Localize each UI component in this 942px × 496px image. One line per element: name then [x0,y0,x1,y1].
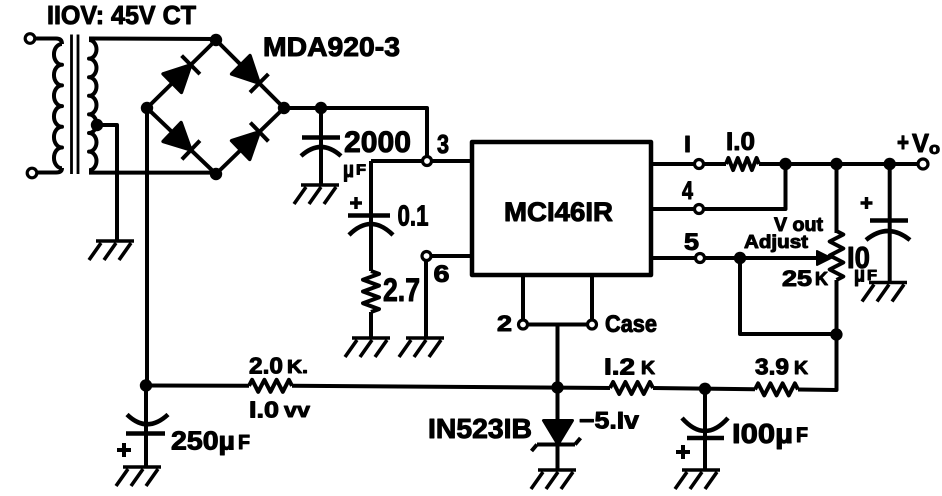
wire center tap to ground [97,125,117,241]
wire DC+ rail [284,108,427,156]
svg-text:F: F [238,432,250,454]
node bridge left [141,102,153,114]
node C4 top [699,383,711,395]
svg-text:0.1: 0.1 [398,201,429,233]
pin 2 node [519,320,528,329]
svg-text:25: 25 [782,266,812,291]
wire case from IC [590,275,594,320]
svg-text:µ: µ [854,264,865,287]
wire bottom rail mid2 [653,388,755,389]
transformer T1 primary winding [35,39,62,45]
wire bridge diamond [147,40,284,174]
resistor R4 2.0K [249,380,292,392]
svg-text:6: 6 [434,261,450,288]
node C1 top [315,102,327,114]
svg-text:3: 3 [437,129,449,159]
node pot top [830,158,842,170]
transformer T1 secondary winding [89,37,216,42]
node R2 out [779,158,791,170]
pin 4 node [695,205,704,214]
resistor R2 1.0 [726,158,759,170]
svg-text:3.9: 3.9 [755,354,789,380]
wire R2 to +Vo [759,162,918,166]
node pot bottom feedback [830,328,842,340]
svg-text:I.0: I.0 [249,397,279,423]
wire pot top [835,164,839,233]
capacitor C4 100uF [703,389,707,470]
terminal +Vo [918,159,928,169]
svg-text:K: K [815,269,828,289]
ground C4 [675,470,720,489]
wire bottom rail left [146,384,249,388]
svg-text:K: K [641,358,655,378]
wire bridge left node down to bottom rail [145,108,149,386]
wiper arrow [817,251,831,265]
diode D1 (left-top arm) [163,65,191,93]
svg-text:vv: vv [284,400,311,422]
capacitor C5 10uF [888,164,892,283]
svg-text:I.2: I.2 [604,354,635,380]
svg-text:IIOV: 45V CT: IIOV: 45V CT [47,0,196,30]
svg-text:F: F [796,424,808,447]
wire pin1 from IC [651,162,694,166]
polarity + C5 [861,197,873,209]
wire case bar down to rail [556,325,560,388]
ground center tap [89,241,134,260]
svg-text:2.0: 2.0 [249,353,283,379]
polarity + C4 [676,445,690,459]
svg-text:K: K [794,358,808,378]
wire node3 to 0.1 junction [371,159,422,163]
wire pot bottom [835,280,839,386]
wire node6 to ground [424,260,428,338]
ground R1 [345,338,390,357]
diode D4 (bottom-right arm) [232,132,260,160]
svg-text:4: 4 [682,177,693,205]
diode D2 (top-right arm) [232,56,260,84]
svg-text:I: I [684,131,691,157]
wire pin5 from IC [651,256,695,260]
wire node3 to IC [431,159,472,163]
zener diode D5 1N5231B [556,388,560,422]
polarity + C2 [350,197,362,209]
svg-text:2: 2 [497,311,512,336]
op-amp U1 MC1461R box [472,142,651,275]
wire pin4 up to output [704,169,786,209]
svg-text:Adjust: Adjust [744,232,808,252]
svg-text:MDA920-3: MDA920-3 [263,32,400,62]
capacitor C2 0.1uF [369,161,373,271]
svg-text:o: o [929,139,940,158]
wire bottom rail mid [292,386,610,388]
wire pin2-case bar [527,323,588,327]
capacitor C1 2000uF [319,108,323,184]
svg-text:−5.Iv: −5.Iv [579,408,640,435]
svg-text:V: V [912,128,930,158]
wire pin5 to pot wiper [705,256,820,260]
wire bottom rail right up [798,338,837,390]
node rail left [140,379,152,391]
terminal primary top [25,34,35,44]
ground node6 [399,338,444,357]
node C5 top [884,158,896,170]
node center tap [91,119,103,131]
wire pin1 to R2 [704,162,726,166]
svg-text:+: + [897,127,909,157]
resistor R1 2.7 [363,271,379,312]
svg-text:MCI46IR: MCI46IR [504,197,613,227]
pin 5 node [696,254,705,263]
node zener top [551,381,563,393]
capacitor C3 250uF [144,386,148,467]
resistor R5 1.2K [610,382,653,394]
diode D3 (left-bottom arm) [163,123,191,150]
svg-text:2000: 2000 [344,126,411,159]
ground D5 [531,470,576,489]
svg-text:IN523IB: IN523IB [428,413,532,444]
svg-text:I00µ: I00µ [732,418,793,449]
resistor R6 3.9K [755,383,798,395]
svg-text:µ: µ [343,157,354,182]
potentiometer R3 25K [830,231,844,280]
svg-text:250µ: 250µ [171,426,235,456]
ground C5 [862,283,907,302]
svg-text:K.: K. [287,357,308,377]
svg-text:2.7: 2.7 [383,272,420,308]
svg-text:5: 5 [684,229,699,256]
pin 1 node [695,160,704,169]
node bridge right [278,102,290,114]
polarity + C3 [117,443,131,457]
wire pin5 feedback [740,258,837,334]
node bridge top [210,34,222,46]
node bridge bottom [210,168,222,180]
transformer T1 core [72,35,79,175]
wire pin2 from IC [521,275,525,320]
pin 6 node [422,252,431,261]
wire pin4 from IC [651,207,694,211]
svg-text:Case: Case [605,311,657,338]
pin 3 node [423,157,432,166]
svg-text:I.0: I.0 [726,128,755,156]
node pin5 junction [734,252,746,264]
pin case node [588,320,597,329]
svg-text:F: F [356,162,366,179]
terminal primary bottom [27,168,37,178]
wire node6 to IC [431,254,472,258]
ground C1 [294,185,339,204]
ground C3 [116,467,161,486]
